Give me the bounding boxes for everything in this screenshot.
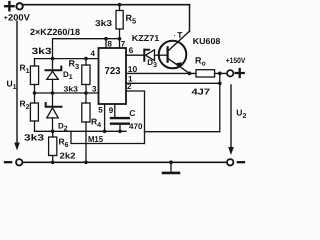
pin 1 wire <box>126 82 220 84</box>
node D1-D2 <box>51 91 55 95</box>
ground <box>170 162 172 171</box>
IC U1 723 <box>99 48 127 104</box>
transistor T KU608 <box>159 41 187 69</box>
wire collector drop <box>189 5 191 32</box>
svg-text:723: 723 <box>105 66 121 77</box>
svg-text:2: 2 <box>127 82 132 91</box>
zener D2 <box>52 93 54 106</box>
svg-text:10: 10 <box>128 64 138 74</box>
svg-text:9: 9 <box>109 106 114 115</box>
wire pin 8 stub <box>105 39 107 48</box>
svg-text:C: C <box>129 108 135 118</box>
resistor R3 <box>85 59 87 65</box>
svg-text:KU608: KU608 <box>193 36 221 46</box>
wire top rail <box>23 4 189 6</box>
svg-text:3k3: 3k3 <box>64 84 79 93</box>
resistor R5 <box>119 5 121 11</box>
node R3 top <box>84 57 88 61</box>
wire drop to zener stack <box>52 39 54 59</box>
arrow U2 <box>230 85 232 148</box>
svg-text:2k2: 2k2 <box>60 151 76 161</box>
output terminal <box>227 70 233 76</box>
zener D1 <box>52 59 54 70</box>
input terminal <box>16 3 22 9</box>
wire output sense vertical <box>219 73 221 131</box>
node R3-R4 <box>84 91 88 95</box>
wire rail pin 3 <box>35 92 99 94</box>
node pin1 junction <box>218 82 222 86</box>
node pin7 <box>118 37 122 41</box>
svg-text:3k3: 3k3 <box>32 46 52 56</box>
svg-text:·: · <box>174 34 176 40</box>
wire pin 7 stub <box>119 39 121 48</box>
node emitter <box>188 72 192 76</box>
terminal bottom-right <box>227 159 233 165</box>
input + symbol <box>5 2 13 10</box>
wire node pins 7-8 <box>53 38 120 40</box>
node R5 top <box>118 3 122 7</box>
capacitor C <box>111 117 129 119</box>
pin 2 wire <box>126 91 145 144</box>
svg-text:+150V: +150V <box>226 56 246 65</box>
resistor R4 <box>85 93 87 103</box>
wire R4 to bottom <box>85 122 87 162</box>
svg-text:7: 7 <box>121 40 126 49</box>
svg-text:4: 4 <box>91 49 96 58</box>
svg-text:8: 8 <box>108 40 113 49</box>
zener D3 <box>144 50 149 61</box>
wire bottom rail <box>23 161 227 163</box>
output + symbol <box>236 69 244 77</box>
svg-text:M15: M15 <box>88 134 103 144</box>
node D1 top <box>51 57 55 61</box>
wire rail V- <box>35 130 127 132</box>
pin 5 wire <box>104 104 106 131</box>
pin 6 wire <box>126 54 143 56</box>
terminal bottom-left <box>16 159 22 165</box>
wire rail pin 4 <box>35 58 99 60</box>
node R1-R2 <box>33 91 37 95</box>
svg-text:3: 3 <box>92 84 97 93</box>
svg-text:3k3: 3k3 <box>95 18 112 28</box>
arrow U1 <box>16 22 18 145</box>
svg-text:2×KZ260/18: 2×KZ260/18 <box>30 27 80 37</box>
node pin8 <box>104 37 108 41</box>
node D2-R6 <box>51 130 55 134</box>
resistor Ro <box>196 70 215 77</box>
resistor R6 <box>52 131 54 137</box>
node cap bottom <box>118 130 122 134</box>
node pin1-output <box>218 72 222 76</box>
node R6 bottom <box>51 161 55 165</box>
node ground <box>169 160 173 164</box>
resistor R1 <box>34 59 36 66</box>
wire sense jumper <box>71 131 145 143</box>
node R4 bottom <box>84 161 88 165</box>
svg-text:200V: 200V <box>8 13 30 23</box>
minus bottom-left <box>5 161 11 163</box>
svg-text:470: 470 <box>129 122 143 131</box>
wire sense horizontal <box>145 131 220 133</box>
svg-text:3k3: 3k3 <box>24 133 44 143</box>
resistor R2 <box>34 93 36 103</box>
svg-text:5: 5 <box>98 106 103 115</box>
svg-text:KZZ71: KZZ71 <box>132 33 160 43</box>
wire output rail <box>126 72 227 74</box>
minus bottom-right <box>238 161 244 163</box>
svg-text:4J7: 4J7 <box>192 87 211 97</box>
pin 9 wire <box>114 104 116 117</box>
node pin5 <box>103 130 107 134</box>
svg-text:6: 6 <box>129 46 134 55</box>
svg-text:T: T <box>177 30 183 40</box>
